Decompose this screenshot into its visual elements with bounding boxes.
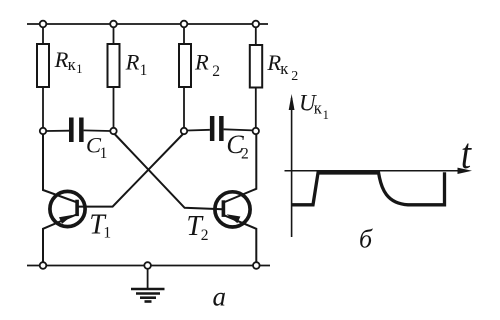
svg-text:R: R <box>194 49 209 74</box>
capacitor C1 left plate <box>69 118 74 143</box>
svg-text:1: 1 <box>323 108 329 122</box>
capacitor C2 right plate <box>219 116 224 141</box>
wire: bottom rail <box>27 265 270 267</box>
graph: horizontal axis t <box>285 170 469 172</box>
graph: horizontal axis arrowhead <box>458 168 473 174</box>
transistor T1 body circle <box>50 191 85 226</box>
svg-text:2: 2 <box>212 63 220 80</box>
wire: rail to R1 top <box>113 27 115 44</box>
wire: T1 collector lead <box>43 134 76 202</box>
node A: T1 collector junction <box>40 128 46 134</box>
svg-text:1: 1 <box>140 62 148 79</box>
wire: ground lead <box>147 269 149 289</box>
svg-text:2: 2 <box>241 145 249 162</box>
node D: T2 collector junction <box>253 128 259 134</box>
node B: R1 / C1 / T2-base junction <box>110 128 116 134</box>
transistor T1 base bar <box>75 200 79 216</box>
node C: R2 / C2 / T1-base junction <box>181 128 187 134</box>
T1 emitter arrow (points to base bar, pnp) <box>59 215 73 224</box>
svg-text:к: к <box>280 59 289 78</box>
label R2 <box>194 49 220 80</box>
svg-text:к: к <box>314 99 323 118</box>
label Rk2 <box>266 50 298 84</box>
label C1 <box>86 133 107 162</box>
svg-text:2: 2 <box>201 227 209 244</box>
node: top rail / R2 <box>181 21 188 28</box>
resistor R2 <box>179 44 191 87</box>
wire: Rk2 bottom to node D <box>255 88 257 128</box>
capacitor C2 left plate <box>210 116 215 141</box>
graph: vertical axis U <box>291 98 293 237</box>
wire: C2 right plate to node D <box>224 129 253 130</box>
svg-text:R: R <box>54 47 69 72</box>
wire: T2 emitter lead <box>223 215 256 262</box>
label T1 <box>89 210 111 242</box>
wire: node A to C1 left plate <box>46 130 69 132</box>
node: top rail / Rk1 <box>40 21 47 28</box>
svg-text:1: 1 <box>103 225 111 242</box>
wire: C1 right plate to node B <box>84 129 111 132</box>
svg-text:2: 2 <box>291 69 298 84</box>
wire: node C to C2 left plate <box>187 129 210 132</box>
svg-text:R: R <box>125 49 140 74</box>
node: bottom rail / T1 emitter <box>40 262 47 269</box>
wire: top supply rail <box>27 23 268 25</box>
wire: node B diagonal to T2 base <box>115 134 223 209</box>
wire: T1 emitter lead <box>43 215 77 263</box>
node: top rail / Rk2 <box>253 21 260 28</box>
resistor Rk1 <box>37 44 49 87</box>
node: bottom rail / ground <box>144 262 151 269</box>
wire: R2 bottom to node C <box>183 87 185 128</box>
wire: T2 collector lead <box>224 134 257 202</box>
wire: Rk1 bottom to node A <box>42 87 44 128</box>
wire: rail to R2 top <box>183 27 185 44</box>
ground symbol <box>131 289 165 302</box>
label T2 <box>186 211 208 244</box>
label Uk1 (axis) <box>299 91 329 122</box>
resistor Rk2 <box>250 45 262 88</box>
svg-text:1: 1 <box>100 145 108 162</box>
node: bottom rail / T2 emitter <box>253 262 260 269</box>
svg-text:t: t <box>461 131 472 178</box>
node: top rail / R1 <box>110 21 117 28</box>
wire: rail to Rk1 top <box>42 27 44 44</box>
resistor R1 <box>108 44 120 87</box>
transistor T2 body circle <box>215 192 250 227</box>
T2 emitter arrow (points to base bar, pnp) <box>227 214 241 223</box>
label C2 <box>226 130 248 162</box>
graph: vertical axis arrowhead <box>289 94 295 110</box>
wire: rail to Rk2 top <box>255 27 257 45</box>
transistor T2 base bar <box>222 200 226 217</box>
svg-text:а: а <box>213 282 227 312</box>
svg-text:R: R <box>266 50 281 75</box>
waveform Uk1(t) <box>292 172 445 205</box>
wire: node C diagonal to T1 base <box>79 134 184 207</box>
svg-text:б: б <box>359 224 373 253</box>
wire: R1 bottom to node B <box>113 87 115 128</box>
svg-text:1: 1 <box>76 62 82 76</box>
capacitor C1 right plate <box>79 118 84 143</box>
label R1 <box>125 49 148 79</box>
label Rk1 <box>54 47 83 76</box>
